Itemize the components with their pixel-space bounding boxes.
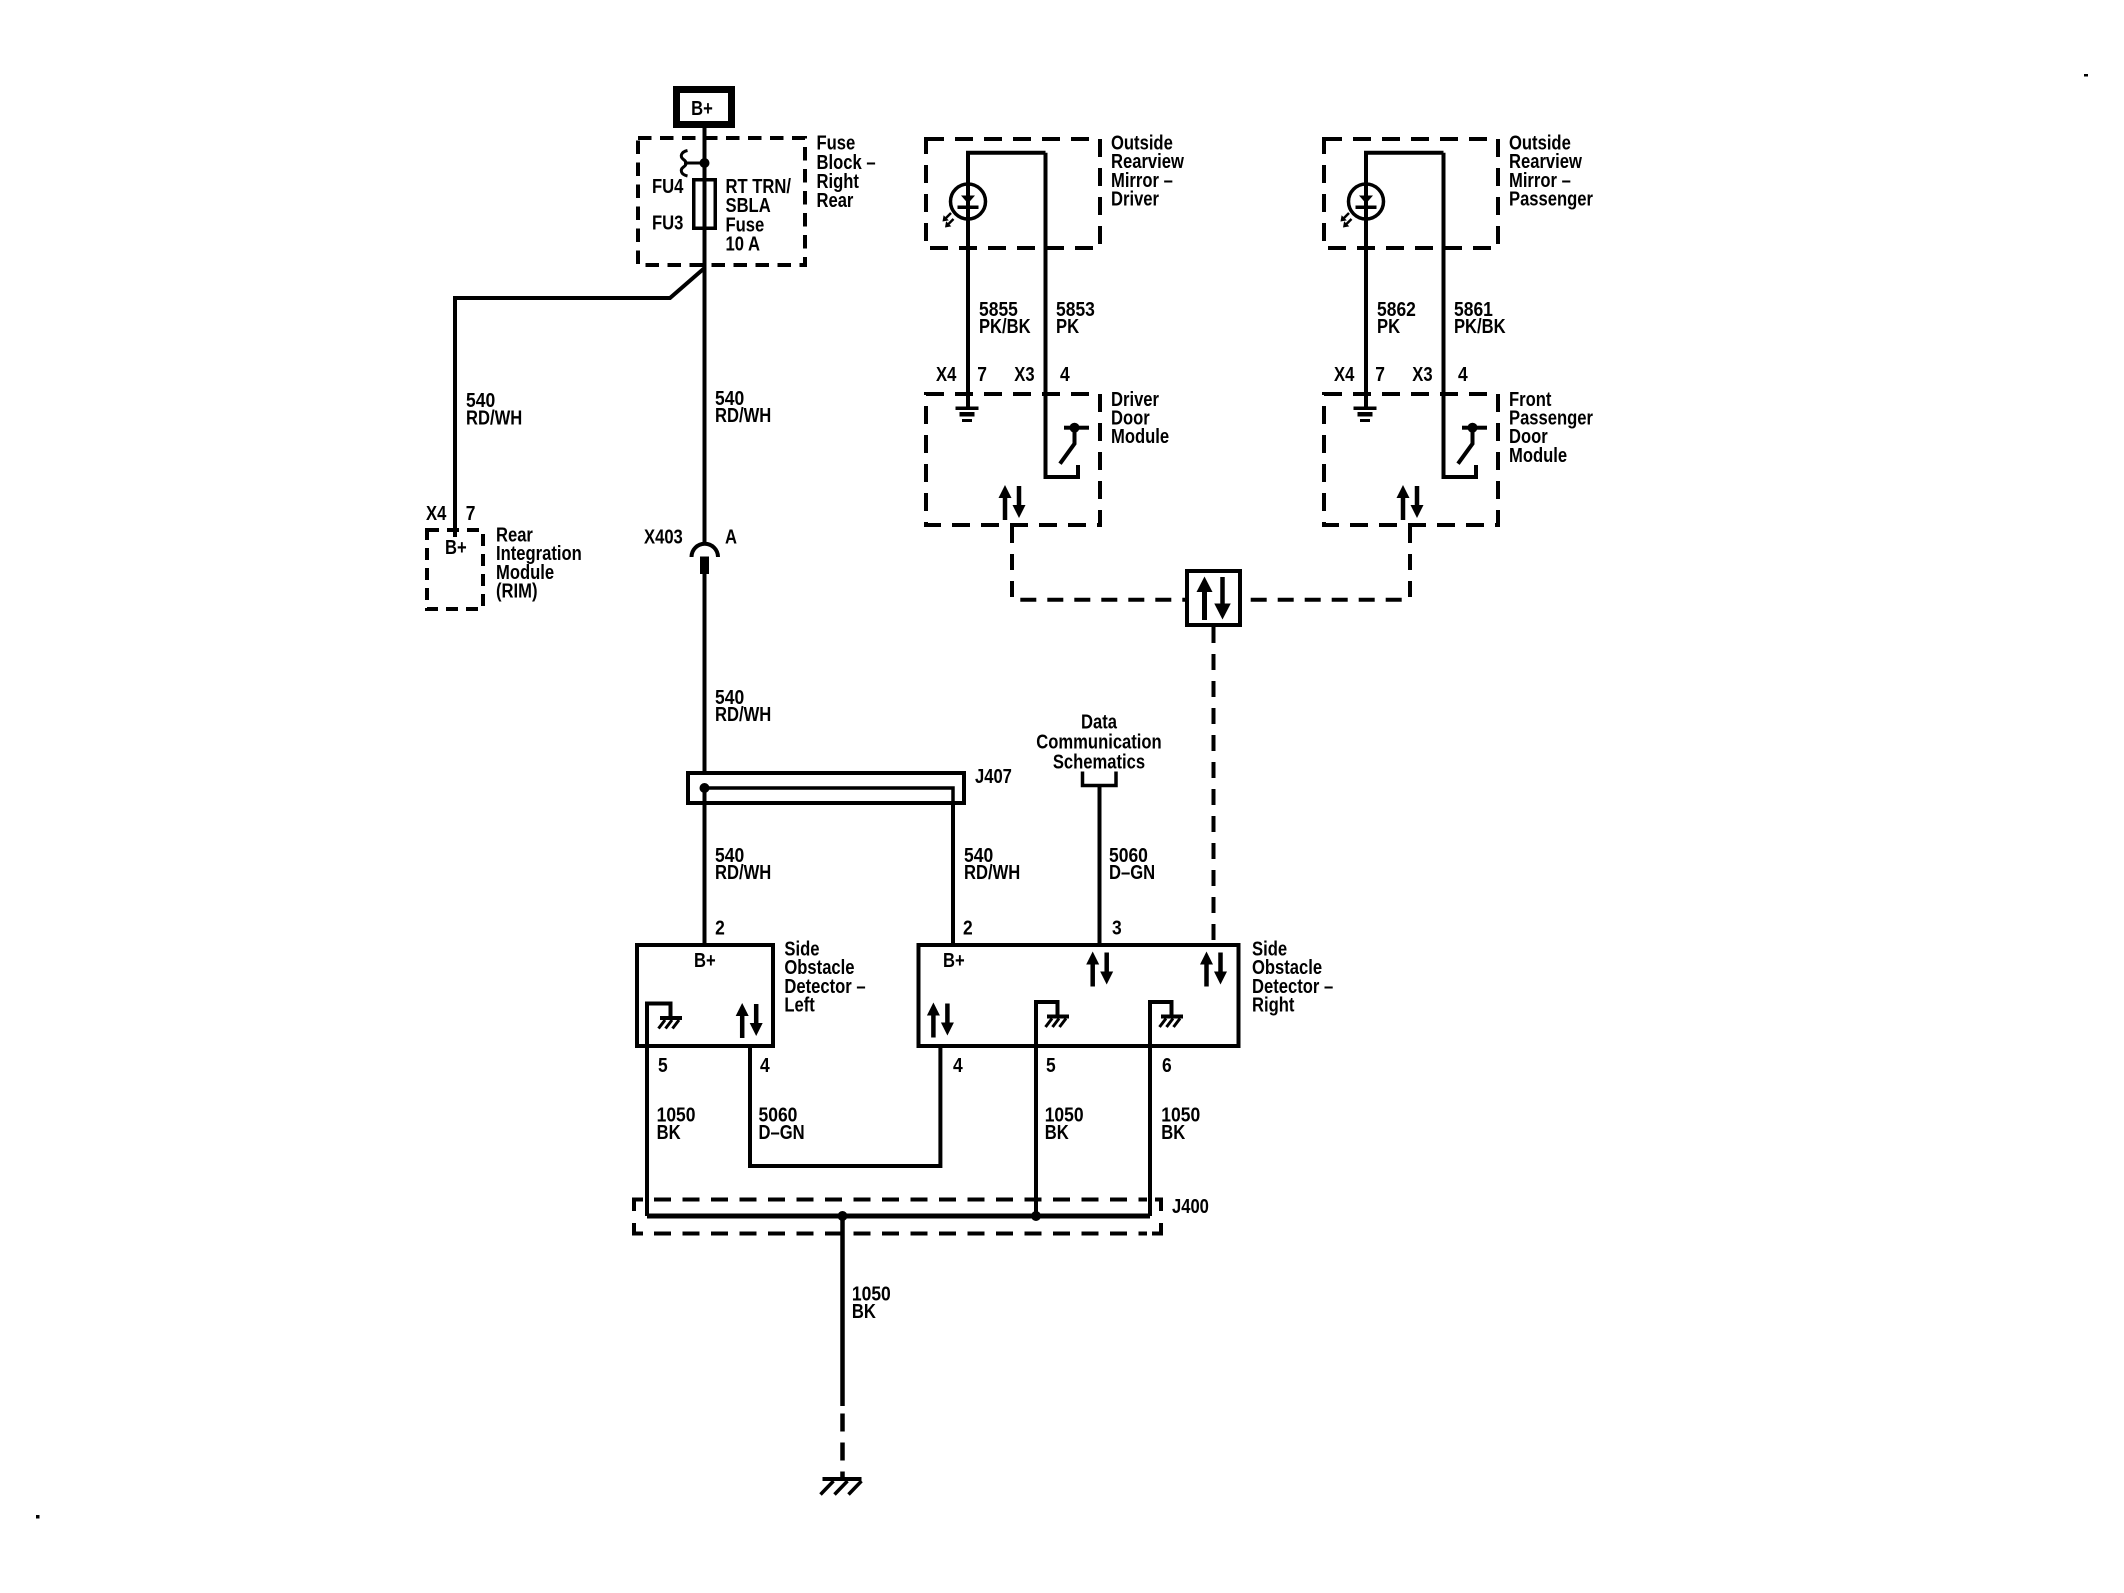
svg-text:4: 4 [1458, 364, 1468, 386]
svg-text:7: 7 [1375, 364, 1385, 386]
data arrows (driver door module) [999, 485, 1026, 520]
wire right detector pin 6 to J400 bus [1148, 1046, 1152, 1216]
svg-text:RD/WH: RD/WH [466, 407, 522, 429]
serial data arrow box [1187, 571, 1240, 625]
svg-text:BK: BK [657, 1122, 681, 1144]
passenger door module dashed box [1324, 394, 1498, 525]
label Data Communication Schematics [1036, 711, 1161, 773]
label circuit 5861 PK/BK [1454, 299, 1506, 338]
scan speck bottom left [36, 1515, 40, 1519]
svg-text:D–GN: D–GN [759, 1122, 805, 1144]
wire J407 to right detector pin 2 [951, 805, 955, 943]
data arrows (left detector) [736, 1003, 763, 1038]
dashed data wire driver door module to arrow box [1012, 527, 1185, 600]
fuse FU3/FU4 RT TRN/SBLA 10A [694, 180, 716, 229]
connector labels X4 7 X3 4 (passenger door module) [1334, 364, 1468, 386]
mirror select switch (driver door module) [1060, 423, 1089, 464]
svg-text:A: A [725, 527, 737, 549]
ground splice J400 dashed box [632, 1200, 1163, 1234]
label Side Obstacle Detector - Right [1252, 939, 1333, 1017]
J400 internal ground bus [647, 1214, 1150, 1219]
label circuit 5855 PK/BK [979, 299, 1031, 338]
svg-text:BK: BK [852, 1301, 876, 1323]
power symbol B+ (battery feed box) [677, 90, 732, 125]
label circuit 5862 PK [1377, 299, 1416, 338]
label 540 RD/WH (below fuse) [715, 388, 771, 427]
label 540 RD/WH (to left detector) [715, 845, 771, 884]
label Front Passenger Door Module [1509, 389, 1593, 467]
label Fuse Block - Right Rear [817, 133, 876, 213]
junction dot right pin 5 on J400 bus [1031, 1211, 1041, 1221]
fuse block internal bus hook [681, 151, 700, 177]
svg-text:B+: B+ [691, 98, 713, 120]
svg-text:Rear: Rear [817, 190, 854, 212]
splice pack J407 [688, 773, 964, 807]
wire branch to Rear Integration Module [455, 268, 705, 537]
dashed data wire arrow box to right detector [1212, 627, 1216, 943]
svg-text:Data: Data [1081, 711, 1118, 733]
Rear Integration Module (RIM) dashed box [427, 530, 483, 609]
svg-text:Driver: Driver [1111, 189, 1159, 211]
svg-text:7: 7 [977, 364, 987, 386]
svg-text:RD/WH: RD/WH [715, 862, 771, 884]
mirror internal wire (driver) [968, 153, 1046, 184]
svg-text:X4: X4 [936, 364, 957, 386]
wire right detector pin 5 to J400 bus [1034, 1046, 1038, 1216]
LED illumination lamp (passenger mirror) [1341, 184, 1384, 228]
svg-text:D–GN: D–GN [1109, 862, 1155, 884]
svg-text:PK/BK: PK/BK [979, 316, 1031, 338]
svg-text:Module: Module [1509, 445, 1567, 467]
svg-text:FU3: FU3 [652, 213, 683, 235]
wire fuse to X403 connector [703, 228, 707, 543]
data arrows (passenger door module) [1397, 485, 1424, 520]
wire J400 to ground (solid part) [840, 1216, 845, 1406]
chassis ground G400 [821, 1477, 862, 1495]
junction dot center of J400 bus [838, 1211, 848, 1221]
svg-text:Passenger: Passenger [1509, 189, 1593, 211]
svg-text:Module: Module [1111, 426, 1169, 448]
ground path 1 inside right detector [1036, 1002, 1069, 1046]
svg-text:B+: B+ [694, 950, 716, 972]
side obstacle detector left box [637, 945, 773, 1046]
label Driver Door Module [1111, 389, 1169, 448]
svg-text:Left: Left [784, 995, 815, 1017]
svg-text:J400: J400 [1172, 1196, 1209, 1218]
svg-text:BK: BK [1161, 1122, 1185, 1144]
svg-text:Right: Right [1252, 995, 1295, 1017]
svg-text:5: 5 [1046, 1055, 1056, 1077]
wire LED to door module ground (passenger) [1364, 219, 1368, 407]
label 540 RD/WH (to right detector) [964, 845, 1020, 884]
svg-text:PK: PK [1377, 316, 1401, 338]
wire mirror to switch (passenger) [1444, 153, 1477, 477]
label Side Obstacle Detector - Left [784, 939, 865, 1017]
ground symbol inside passenger door module [1354, 407, 1377, 423]
svg-text:B+: B+ [445, 537, 467, 559]
wire to ground (dashed part) [840, 1414, 845, 1479]
svg-text:X3: X3 [1412, 364, 1432, 386]
svg-text:(RIM): (RIM) [496, 581, 538, 603]
ground path inside left detector [647, 1004, 682, 1047]
label RT TRN/ SBLA Fuse 10 A [726, 176, 792, 256]
svg-text:Communication: Communication [1036, 731, 1161, 753]
svg-text:B+: B+ [943, 950, 965, 972]
label 5060 D-GN (pin 3) [1109, 845, 1155, 884]
label 1050 BK (ground drop) [852, 1284, 891, 1323]
svg-text:X403: X403 [644, 527, 683, 549]
svg-text:5: 5 [658, 1055, 668, 1077]
wire mirror to switch (driver) [1046, 153, 1079, 477]
svg-text:X4: X4 [1334, 364, 1355, 386]
svg-text:PK/BK: PK/BK [1454, 316, 1506, 338]
svg-text:X3: X3 [1014, 364, 1034, 386]
svg-text:2: 2 [715, 917, 725, 939]
wire left detector pin 5 to J400 bus [645, 1046, 649, 1216]
svg-text:RD/WH: RD/WH [964, 862, 1020, 884]
data arrows below pin 3 (right detector) [1086, 952, 1113, 987]
scan speck top right [2084, 74, 2088, 77]
wire 5060 D-GN left pin4 to right pin4 [750, 1046, 940, 1166]
wire data link to right detector pin 3 [1098, 786, 1102, 944]
label 5060 D-GN (pin 4) [759, 1105, 805, 1144]
svg-text:4: 4 [1060, 364, 1070, 386]
driver door module dashed box [926, 394, 1100, 525]
svg-text:4: 4 [953, 1055, 963, 1077]
label Rear Integration Module (RIM) [496, 525, 582, 603]
svg-text:BK: BK [1045, 1122, 1069, 1144]
svg-text:PK: PK [1056, 316, 1080, 338]
connector labels X4 7 X3 4 (driver door module) [936, 364, 1070, 386]
outside rearview mirror passenger dashed box [1324, 139, 1498, 248]
label 1050 BK (left pin 5) [657, 1105, 696, 1144]
wire LED to door module ground (driver) [966, 219, 970, 407]
LED illumination lamp (driver mirror) [943, 184, 986, 228]
wire J407 to left detector pin 2 [703, 788, 707, 943]
label 1050 BK (right pin 5) [1045, 1105, 1084, 1144]
svg-text:Schematics: Schematics [1053, 751, 1145, 773]
outside rearview mirror driver dashed box [926, 139, 1100, 248]
label circuit 5853 PK [1056, 299, 1095, 338]
fuse block - right rear dashed box [638, 138, 805, 265]
svg-text:X4: X4 [426, 503, 447, 525]
connector X403 terminal A [692, 544, 719, 574]
label 540 RD/WH (above J407) [715, 687, 771, 726]
wire X403 to splice J407 [703, 574, 707, 788]
svg-text:RD/WH: RD/WH [715, 405, 771, 427]
data schematics bracket [1083, 772, 1117, 786]
svg-text:7: 7 [466, 503, 476, 525]
side obstacle detector right box [919, 945, 1239, 1046]
svg-text:2: 2 [963, 917, 973, 939]
wire B+ to fuse block bus [703, 128, 707, 180]
junction dot in fuse block [700, 158, 710, 168]
svg-text:J407: J407 [975, 766, 1012, 788]
data arrows below dashed data line (right detector) [1200, 952, 1227, 987]
dashed data wire passenger door module to arrow box [1242, 527, 1410, 600]
label 540 RD/WH (left branch) [466, 390, 522, 429]
ground path 2 inside right detector [1150, 1002, 1183, 1046]
connector label X4 pin 7 (RIM) [426, 503, 475, 525]
svg-text:10 A: 10 A [726, 234, 761, 256]
label Outside Rearview Mirror - Passenger [1509, 132, 1593, 210]
label 1050 BK (right pin 6) [1161, 1105, 1200, 1144]
svg-text:RD/WH: RD/WH [715, 704, 771, 726]
ground symbol inside driver door module [956, 407, 979, 423]
svg-text:6: 6 [1162, 1055, 1172, 1077]
label Outside Rearview Mirror - Driver [1111, 132, 1184, 210]
svg-text:3: 3 [1112, 917, 1122, 939]
svg-text:FU4: FU4 [652, 176, 684, 198]
svg-text:4: 4 [760, 1055, 770, 1077]
data arrows lower left (right detector) [927, 1003, 954, 1038]
mirror internal wire (passenger) [1366, 153, 1444, 184]
mirror select switch (passenger door module) [1458, 423, 1487, 464]
